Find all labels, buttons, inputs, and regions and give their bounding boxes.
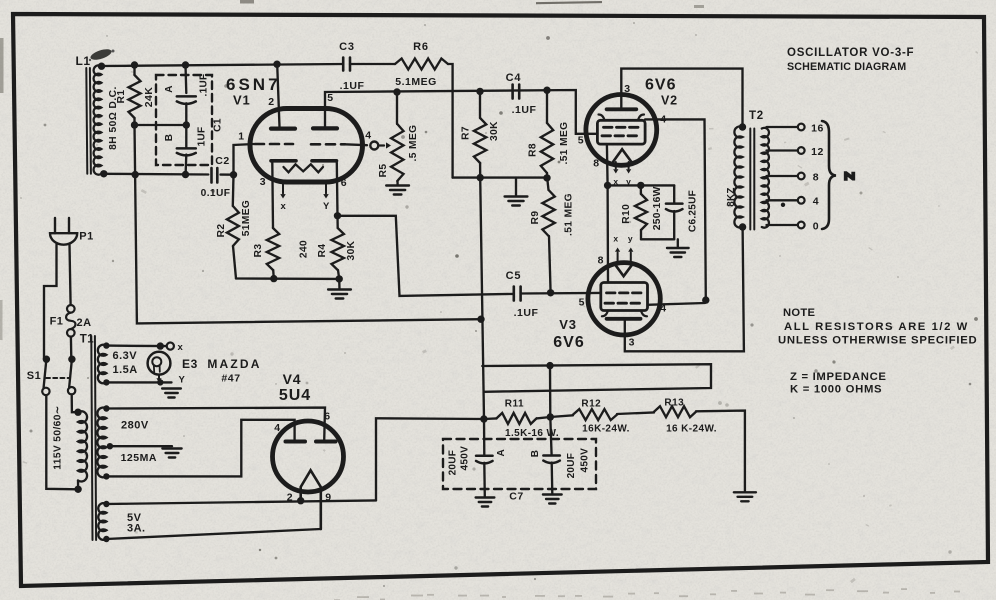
- svg-text:4: 4: [660, 114, 666, 126]
- svg-text:B: B: [164, 134, 175, 142]
- svg-text:20UF: 20UF: [448, 450, 459, 476]
- svg-text:OSCILLATOR VO-3-F: OSCILLATOR VO-3-F: [787, 47, 914, 59]
- svg-text:51MEG: 51MEG: [241, 200, 252, 237]
- svg-text:125MA: 125MA: [121, 452, 157, 464]
- svg-text:6: 6: [324, 411, 330, 423]
- svg-text:5.1MEG: 5.1MEG: [395, 76, 437, 88]
- svg-text:1UF: 1UF: [196, 127, 207, 147]
- svg-text:V4: V4: [283, 371, 302, 387]
- svg-text:6V6: 6V6: [553, 334, 584, 351]
- svg-text:3: 3: [624, 83, 630, 95]
- svg-text:T2: T2: [749, 110, 764, 122]
- svg-text:R8: R8: [528, 143, 539, 157]
- svg-text:C1: C1: [213, 118, 224, 132]
- svg-text:R1: R1: [116, 90, 127, 104]
- svg-text:.1UF: .1UF: [198, 74, 209, 97]
- svg-text:6.3V: 6.3V: [113, 350, 138, 362]
- svg-text:y: y: [626, 177, 631, 187]
- svg-text:280V: 280V: [121, 420, 149, 432]
- svg-text:3A.: 3A.: [127, 523, 146, 535]
- svg-text:2: 2: [268, 96, 274, 108]
- svg-text:3: 3: [260, 176, 266, 188]
- svg-text:16: 16: [811, 123, 824, 135]
- svg-text:4: 4: [813, 196, 819, 208]
- svg-text:6SN7: 6SN7: [226, 75, 281, 94]
- svg-text:R13: R13: [664, 398, 684, 409]
- svg-text:16 K-24W.: 16 K-24W.: [666, 424, 717, 435]
- svg-text:R12: R12: [581, 399, 601, 410]
- svg-text:24K: 24K: [143, 87, 155, 107]
- svg-text:R10: R10: [621, 204, 632, 224]
- svg-text:E3: E3: [182, 357, 198, 371]
- svg-text:4: 4: [660, 303, 666, 315]
- svg-text:R7: R7: [461, 126, 472, 140]
- svg-text:#47: #47: [221, 373, 240, 385]
- svg-text:C2: C2: [215, 155, 229, 167]
- svg-text:T1: T1: [80, 334, 95, 346]
- svg-text:R3: R3: [253, 244, 264, 258]
- svg-text:4: 4: [274, 422, 280, 434]
- svg-text:5: 5: [579, 297, 585, 309]
- svg-text:K = 1000 OHMS: K = 1000 OHMS: [790, 384, 882, 396]
- svg-text:L1: L1: [75, 54, 90, 68]
- svg-text:450V: 450V: [460, 446, 471, 471]
- svg-text:x: x: [281, 201, 287, 212]
- svg-text:8: 8: [813, 172, 819, 184]
- svg-text:0: 0: [813, 221, 819, 233]
- svg-text:.1UF: .1UF: [512, 104, 537, 116]
- svg-text:8KZ: 8KZ: [726, 187, 737, 206]
- svg-text:P1: P1: [79, 231, 93, 243]
- svg-text:1.5A: 1.5A: [113, 364, 138, 376]
- svg-text:R6: R6: [413, 41, 429, 53]
- svg-text:S1: S1: [27, 370, 41, 382]
- svg-text:C3: C3: [339, 41, 355, 53]
- svg-text:.5 MEG: .5 MEG: [408, 125, 419, 162]
- svg-text:3: 3: [629, 337, 635, 349]
- svg-text:6: 6: [341, 177, 347, 189]
- svg-text:x: x: [613, 234, 618, 244]
- svg-text:V1: V1: [233, 93, 251, 108]
- svg-text:R2: R2: [216, 224, 227, 238]
- svg-text:Z: Z: [842, 172, 857, 180]
- svg-text:.1UF: .1UF: [514, 307, 539, 319]
- svg-text:1.5K-16 W.: 1.5K-16 W.: [505, 428, 559, 439]
- svg-text:16K-24W.: 16K-24W.: [582, 424, 630, 435]
- svg-text:30K: 30K: [489, 121, 500, 141]
- svg-text:8: 8: [598, 255, 604, 267]
- svg-text:240: 240: [299, 240, 310, 258]
- svg-text:5: 5: [578, 135, 584, 147]
- svg-text:12: 12: [811, 146, 824, 158]
- svg-text:F1: F1: [50, 316, 64, 328]
- svg-text:Z = IMPEDANCE: Z = IMPEDANCE: [790, 371, 887, 383]
- svg-text:y: y: [628, 234, 633, 244]
- svg-text:6V6: 6V6: [645, 77, 676, 94]
- svg-text:A: A: [164, 85, 175, 93]
- svg-text:B: B: [530, 450, 541, 458]
- svg-text:R11: R11: [505, 399, 524, 410]
- svg-text:SCHEMATIC DIAGRAM: SCHEMATIC DIAGRAM: [787, 61, 906, 73]
- svg-text:450V: 450V: [580, 448, 591, 473]
- svg-text:C6.25UF: C6.25UF: [687, 190, 698, 232]
- svg-text:x: x: [613, 177, 618, 187]
- svg-text:V2: V2: [661, 94, 678, 108]
- svg-text:Y: Y: [179, 375, 186, 386]
- svg-text:C7: C7: [509, 491, 523, 503]
- svg-text:8: 8: [593, 158, 599, 170]
- svg-text:115V 50/60∼: 115V 50/60∼: [53, 405, 64, 470]
- svg-text:.51 MEG: .51 MEG: [564, 193, 575, 236]
- svg-text:30K: 30K: [346, 240, 357, 260]
- svg-text:1: 1: [238, 131, 244, 143]
- svg-text:ALL RESISTORS ARE 1/2 W: ALL RESISTORS ARE 1/2 W: [784, 321, 969, 333]
- svg-text:A: A: [496, 449, 507, 457]
- svg-text:R5: R5: [378, 164, 389, 178]
- svg-text:R9: R9: [530, 211, 541, 225]
- svg-text:5: 5: [327, 92, 333, 104]
- svg-text:9: 9: [325, 492, 331, 504]
- svg-text:.51 MEG: .51 MEG: [559, 122, 570, 165]
- svg-text:C4: C4: [506, 72, 522, 84]
- svg-text:NOTE: NOTE: [783, 307, 816, 319]
- svg-text:4: 4: [365, 130, 371, 142]
- svg-text:C5: C5: [506, 270, 522, 282]
- svg-text:x: x: [178, 342, 184, 353]
- svg-text:20UF: 20UF: [566, 453, 577, 479]
- svg-text:MAZDA: MAZDA: [207, 357, 261, 371]
- svg-text:R4: R4: [317, 244, 328, 258]
- svg-text:UNLESS OTHERWISE SPECIFIED: UNLESS OTHERWISE SPECIFIED: [778, 335, 977, 347]
- svg-text:0.1UF: 0.1UF: [201, 188, 231, 199]
- svg-text:250-16W.: 250-16W.: [652, 184, 663, 230]
- svg-text:Y: Y: [323, 201, 330, 212]
- svg-text:V3: V3: [559, 317, 577, 332]
- svg-text:5U4: 5U4: [279, 387, 311, 404]
- svg-text:2: 2: [287, 492, 293, 504]
- svg-text:.1UF: .1UF: [340, 80, 365, 92]
- svg-text:2A: 2A: [76, 317, 91, 329]
